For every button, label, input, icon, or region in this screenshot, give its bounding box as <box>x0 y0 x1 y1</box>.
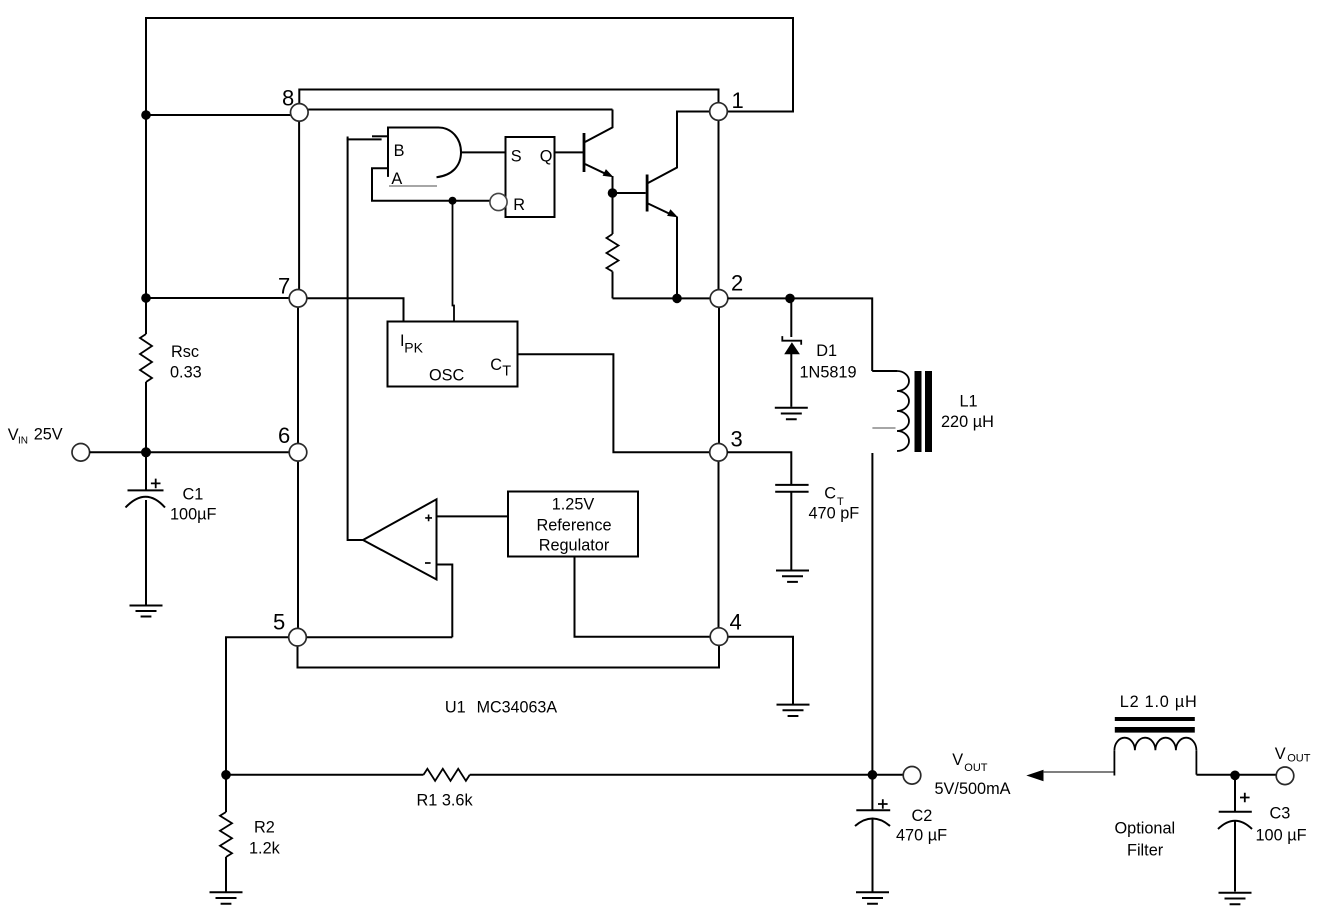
node dot A/R <box>449 197 457 205</box>
svg-text:OUT: OUT <box>1287 753 1311 765</box>
capacitor CT <box>775 485 808 570</box>
pin 3 circle <box>710 444 728 462</box>
ground D1 <box>775 408 808 419</box>
svg-text:Q: Q <box>540 148 553 166</box>
IC right edge pin3-pin4 <box>718 461 720 628</box>
arrow to filter <box>1026 770 1114 781</box>
node dot D1 <box>785 294 795 304</box>
wire Q to driver base <box>555 151 584 153</box>
svg-text:4: 4 <box>730 610 742 635</box>
wire feedback row with R1 <box>226 774 424 776</box>
svg-text:C: C <box>824 485 836 503</box>
terminal VIN <box>72 444 90 462</box>
svg-text:S: S <box>511 148 522 166</box>
svg-text:25V: 25V <box>34 426 63 444</box>
wire pin8 to driver collector <box>308 109 612 111</box>
wire comparator minus to pin 5 <box>437 565 453 638</box>
comparator feedback wire to AND gate input B <box>348 137 364 541</box>
svg-text:OSC: OSC <box>429 367 465 385</box>
wire to Q2 base <box>613 192 646 194</box>
L2 core bars <box>1115 717 1195 733</box>
svg-text:C3: C3 <box>1270 805 1291 823</box>
resistor base-emitter <box>607 193 711 298</box>
SR latch box <box>506 137 555 217</box>
svg-text:100 µF: 100 µF <box>1256 827 1307 845</box>
AND gate arc <box>437 128 462 178</box>
inductor L1 <box>872 371 909 451</box>
svg-text:R2: R2 <box>254 819 275 837</box>
svg-text:5V/500mA: 5V/500mA <box>935 780 1011 798</box>
svg-text:Regulator: Regulator <box>539 537 610 555</box>
wire reference ground to pin 4 <box>575 557 711 637</box>
wire left Vin rail upper <box>145 17 147 334</box>
transistor Q1 driver <box>583 110 614 194</box>
svg-text:D1: D1 <box>816 342 837 360</box>
svg-text:T: T <box>502 364 511 380</box>
wire pin5 left and down <box>226 637 289 775</box>
wire switch node down to Vout <box>871 453 873 775</box>
node dot feedback <box>221 770 231 780</box>
svg-text:Optional: Optional <box>1115 820 1176 838</box>
wire pin4 to ground <box>728 637 793 704</box>
IC left edge pin6-pin5 <box>297 461 299 628</box>
L1 core bars <box>915 371 933 452</box>
svg-text:R: R <box>513 196 525 214</box>
grey underline A <box>389 185 437 187</box>
pin 7 circle <box>289 290 307 308</box>
wire R1 to Vout node <box>470 774 903 776</box>
pin 8 circle <box>291 104 309 122</box>
svg-text:V: V <box>952 751 963 769</box>
svg-text:6: 6 <box>278 423 290 448</box>
terminal VOUT2 <box>1276 767 1294 785</box>
wire pin3 to CT cap <box>727 452 791 484</box>
svg-text:8: 8 <box>282 86 294 111</box>
svg-text:U1: U1 <box>445 699 466 717</box>
wire left Vin rail lower <box>145 382 147 452</box>
svg-text:C1: C1 <box>183 486 204 504</box>
IC top edge pin8 to pin1 <box>299 90 718 105</box>
capacitor C1 <box>126 452 166 605</box>
svg-text:PK: PK <box>404 340 423 356</box>
label minus <box>425 562 431 564</box>
transistor Q2 switch <box>646 112 710 299</box>
svg-text:2: 2 <box>731 271 743 296</box>
wire pin7 to rail <box>146 297 289 299</box>
svg-text:470 µF: 470 µF <box>896 827 947 845</box>
svg-text:7: 7 <box>278 274 290 299</box>
node dot Q1 emitter <box>608 188 618 198</box>
svg-text:OUT: OUT <box>964 762 988 774</box>
IC left edge pin7-pin6 <box>297 307 299 444</box>
svg-text:Reference: Reference <box>536 517 611 535</box>
resistor R1 <box>424 769 470 781</box>
svg-text:3: 3 <box>731 427 743 452</box>
ground C2 <box>856 892 889 903</box>
svg-text:470 pF: 470 pF <box>809 505 860 523</box>
svg-text:Filter: Filter <box>1127 842 1164 860</box>
node dot C3 <box>1230 771 1240 781</box>
IC bottom edge pin5-pin4 <box>298 645 720 667</box>
svg-text:100µF: 100µF <box>170 506 217 524</box>
AND gate U-shape <box>388 128 439 177</box>
pin 1 circle <box>710 103 728 121</box>
wire pin5 to minus branch <box>306 636 452 638</box>
AND gate input B bar <box>372 135 388 137</box>
svg-text:L2 1.0 µH: L2 1.0 µH <box>1120 693 1198 711</box>
svg-text:1.2k: 1.2k <box>249 840 281 858</box>
svg-text:V: V <box>1275 745 1286 763</box>
capacitor C2 <box>855 775 890 892</box>
wire pin8 to rail <box>146 114 291 116</box>
pin 6 circle <box>289 444 307 462</box>
node dot Vin <box>141 447 151 457</box>
resistor R2 <box>220 775 232 892</box>
bubble R input <box>490 193 507 210</box>
svg-text:C: C <box>490 356 502 374</box>
ground R2 <box>210 892 243 903</box>
svg-text:1N5819: 1N5819 <box>800 364 857 382</box>
ground C3 <box>1219 893 1252 904</box>
grey tap L1 <box>872 427 895 429</box>
svg-text:MC34063A: MC34063A <box>477 699 558 717</box>
capacitor C3 <box>1218 775 1252 891</box>
ground CT <box>776 571 809 582</box>
wire AND output to S <box>462 151 506 153</box>
reference regulator box <box>508 492 638 557</box>
label plus <box>425 515 432 522</box>
inductor L2 <box>1114 738 1196 776</box>
wire top rail from Vin rail to pin 1 <box>146 18 793 112</box>
wire L2 to Vout2 <box>1196 774 1276 776</box>
svg-text:C2: C2 <box>912 807 933 825</box>
terminal VOUT <box>903 767 921 785</box>
ground C1 <box>130 606 163 617</box>
oscillator box <box>388 322 518 387</box>
wire AND gate input A <box>372 168 491 200</box>
svg-text:IN: IN <box>18 436 28 447</box>
IC right edge pin1-pin2 <box>718 120 720 289</box>
node dot Q2 emitter <box>672 294 682 304</box>
node dot pin7 row <box>141 293 151 303</box>
resistor Rsc <box>140 334 152 382</box>
pin 4 circle <box>710 628 728 646</box>
svg-text:220 µH: 220 µH <box>941 413 994 431</box>
svg-text:B: B <box>394 142 405 160</box>
pin 5 circle <box>289 628 307 646</box>
wire pin2 to switch node <box>728 298 872 371</box>
comparator triangle <box>363 499 437 579</box>
svg-text:R1 3.6k: R1 3.6k <box>417 792 474 810</box>
wire CT output to pin 3 <box>518 354 710 452</box>
svg-text:Rsc: Rsc <box>171 343 199 361</box>
wire dot to OSC top <box>453 201 455 322</box>
svg-text:0.33: 0.33 <box>170 364 202 382</box>
diode D1 schottky <box>782 298 801 406</box>
IC right edge pin2-pin3 <box>718 307 720 443</box>
svg-text:5: 5 <box>273 610 285 635</box>
svg-text:L1: L1 <box>960 393 978 411</box>
IC left edge pin8-pin7 <box>298 121 300 289</box>
ground pin4 <box>777 705 810 716</box>
svg-text:1.25V: 1.25V <box>552 496 595 514</box>
node dot pin8 row <box>141 110 151 120</box>
wire comparator plus to reference <box>437 515 509 517</box>
svg-text:1: 1 <box>732 88 744 113</box>
wire pin7 to OSC Ipk <box>307 298 404 321</box>
node dot Vout <box>868 770 878 780</box>
wire Vin terminal to pin 6 <box>90 451 290 453</box>
pin 2 circle <box>710 290 728 308</box>
